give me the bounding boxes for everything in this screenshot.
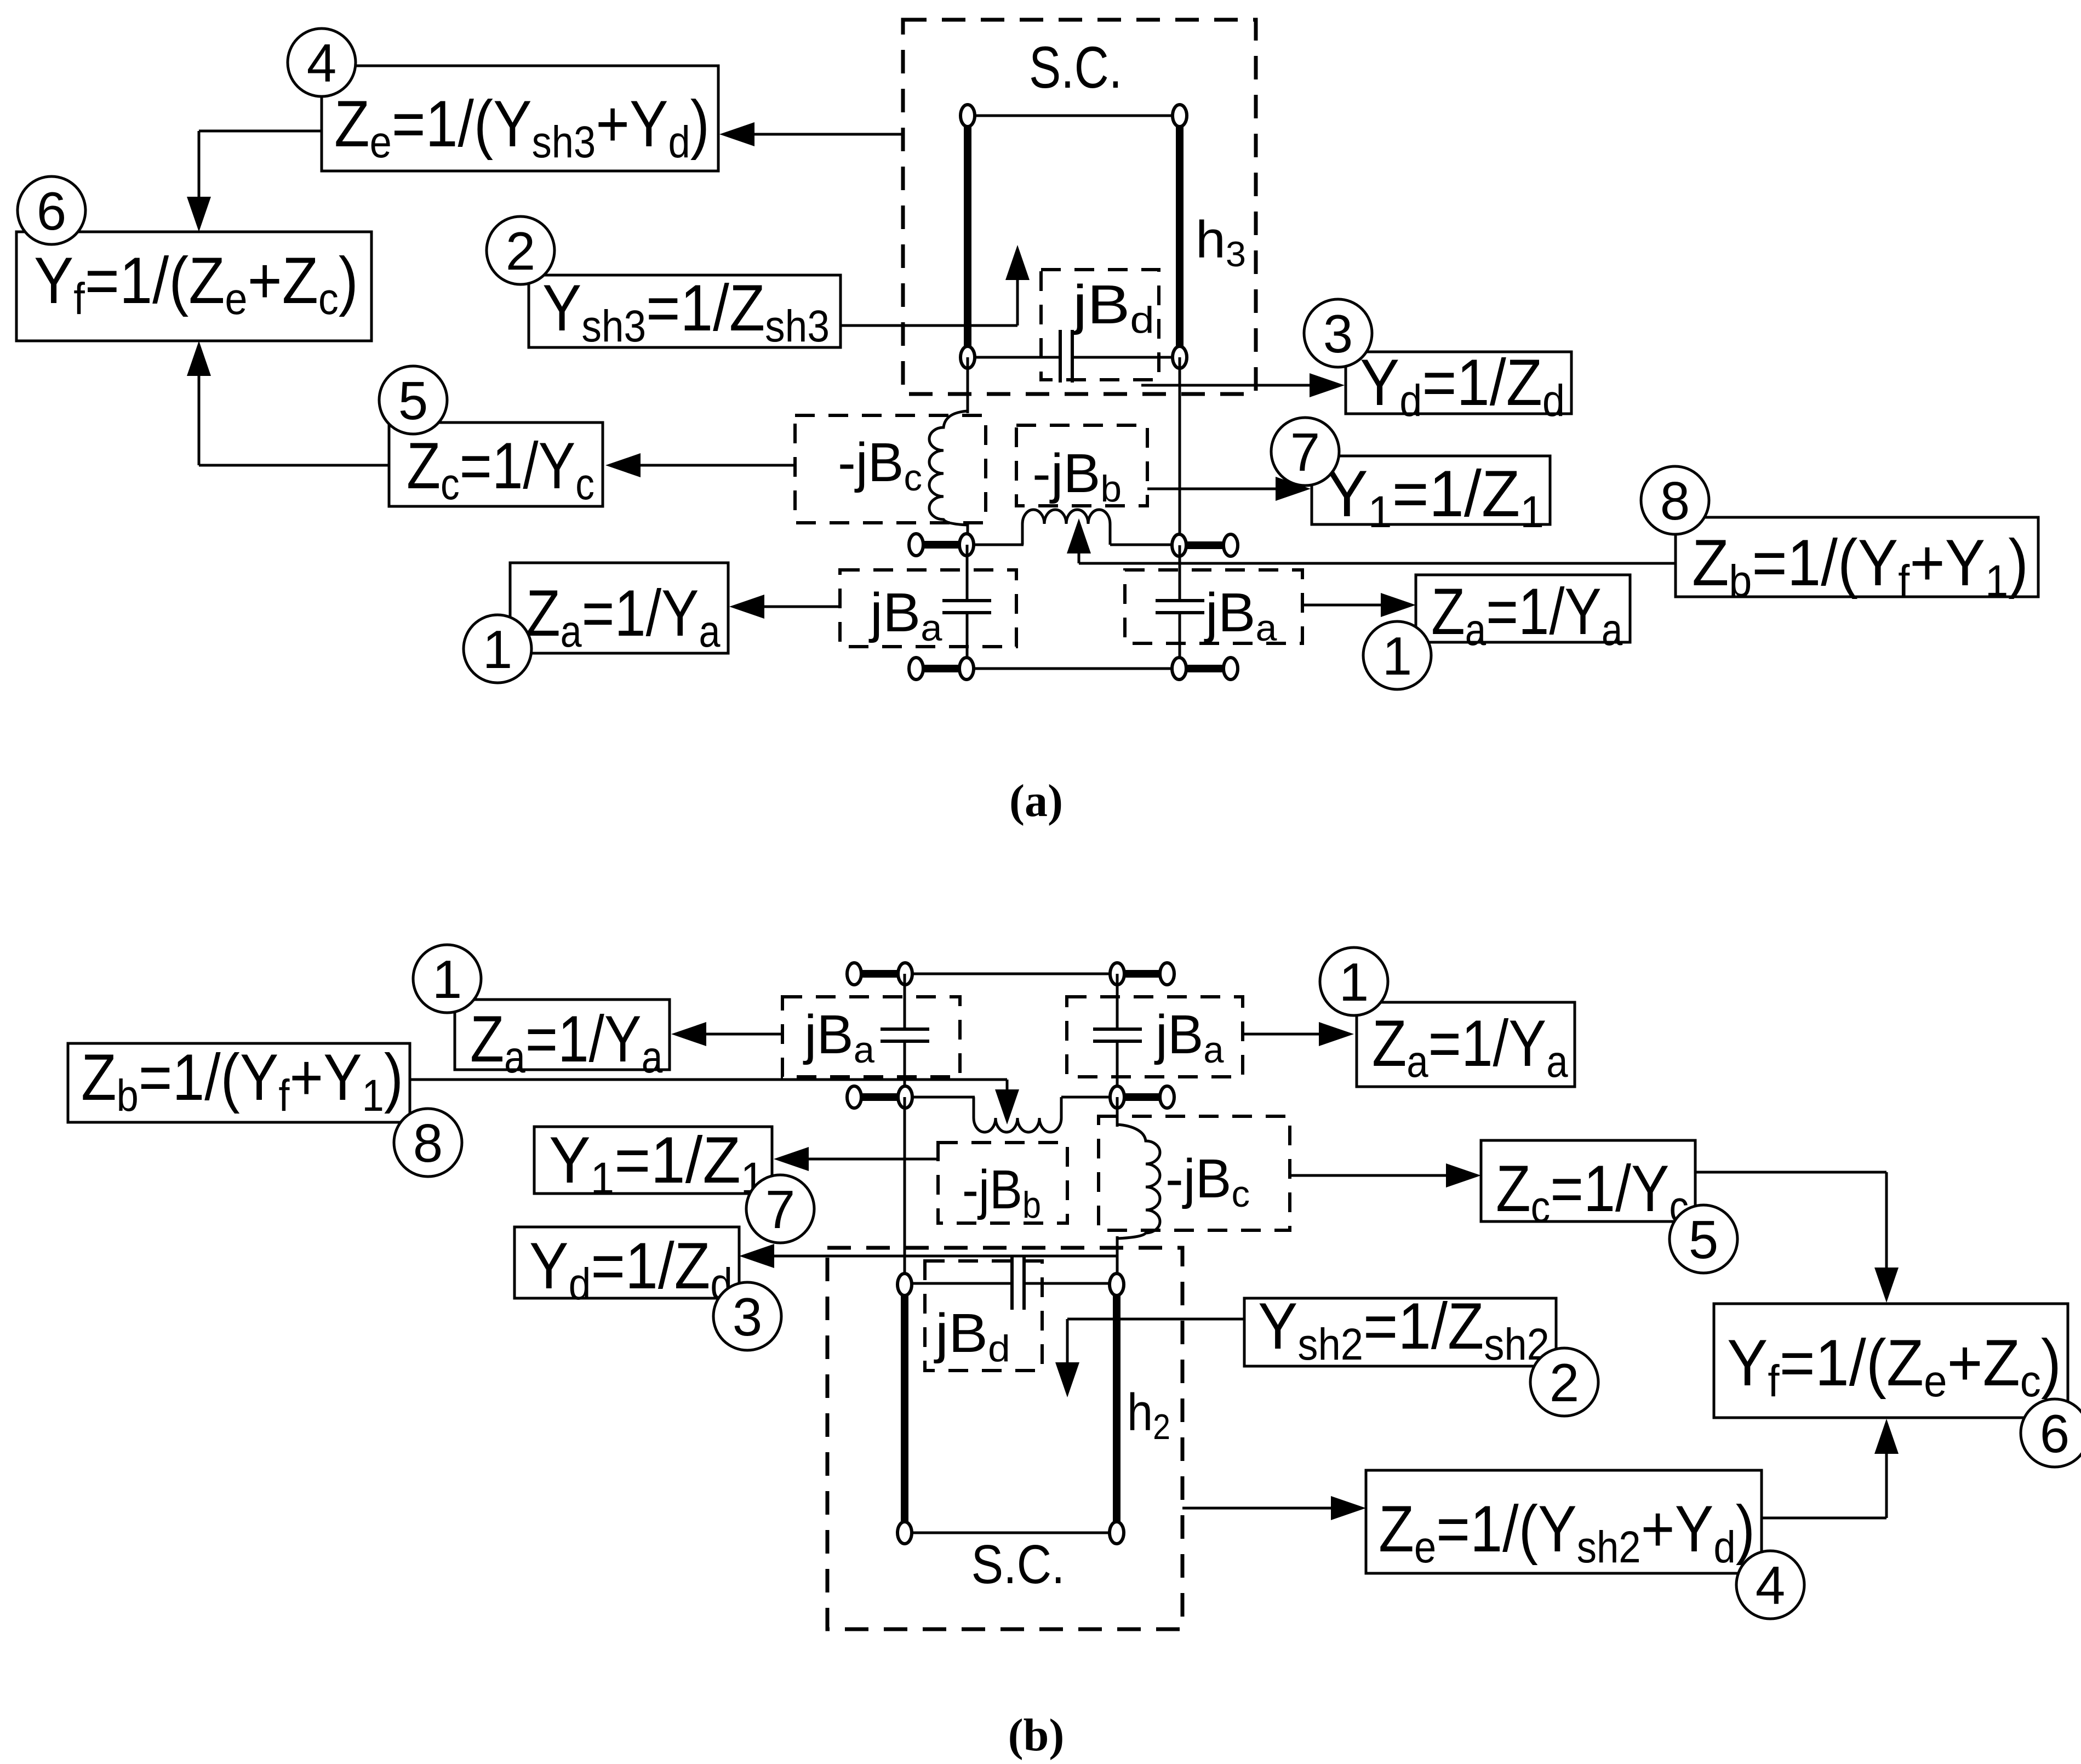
svg-text:Za=1/Ya: Za=1/Ya xyxy=(470,1002,663,1082)
svg-text:Zc=1/Yc: Zc=1/Yc xyxy=(1496,1151,1689,1232)
svg-text:Y1=1/Z1: Y1=1/Z1 xyxy=(549,1123,764,1203)
svg-text:Yd=1/Zd: Yd=1/Zd xyxy=(1360,346,1565,426)
svg-text:S.C.: S.C. xyxy=(1029,34,1122,100)
svg-text:5: 5 xyxy=(1689,1209,1719,1270)
svg-text:Zc=1/Yc: Zc=1/Yc xyxy=(407,429,594,509)
svg-text:Y1=1/Z1: Y1=1/Z1 xyxy=(1326,457,1544,538)
svg-text:(a): (a) xyxy=(1009,775,1063,826)
svg-text:7: 7 xyxy=(1290,422,1320,482)
svg-text:6: 6 xyxy=(37,181,67,241)
svg-text:2: 2 xyxy=(506,221,536,281)
svg-text:8: 8 xyxy=(413,1113,443,1173)
svg-text:(b): (b) xyxy=(1008,1710,1065,1761)
svg-text:5: 5 xyxy=(398,370,428,431)
svg-text:1: 1 xyxy=(483,619,513,680)
svg-text:Yd=1/Zd: Yd=1/Zd xyxy=(529,1229,733,1309)
svg-text:2: 2 xyxy=(1550,1352,1580,1413)
svg-text:1: 1 xyxy=(1382,626,1413,686)
svg-text:4: 4 xyxy=(307,33,337,93)
svg-text:S.C.: S.C. xyxy=(971,1534,1065,1595)
svg-text:8: 8 xyxy=(1660,471,1690,531)
svg-text:1: 1 xyxy=(1339,952,1369,1012)
svg-text:1: 1 xyxy=(432,949,462,1009)
svg-text:Za=1/Ya: Za=1/Ya xyxy=(1431,575,1623,655)
svg-text:4: 4 xyxy=(1756,1555,1786,1615)
svg-text:3: 3 xyxy=(733,1287,763,1347)
svg-text:7: 7 xyxy=(765,1179,796,1240)
svg-text:Za=1/Ya: Za=1/Ya xyxy=(1372,1007,1568,1087)
svg-text:Za=1/Ya: Za=1/Ya xyxy=(526,576,721,656)
svg-text:6: 6 xyxy=(2040,1403,2070,1464)
svg-text:3: 3 xyxy=(1323,304,1353,364)
